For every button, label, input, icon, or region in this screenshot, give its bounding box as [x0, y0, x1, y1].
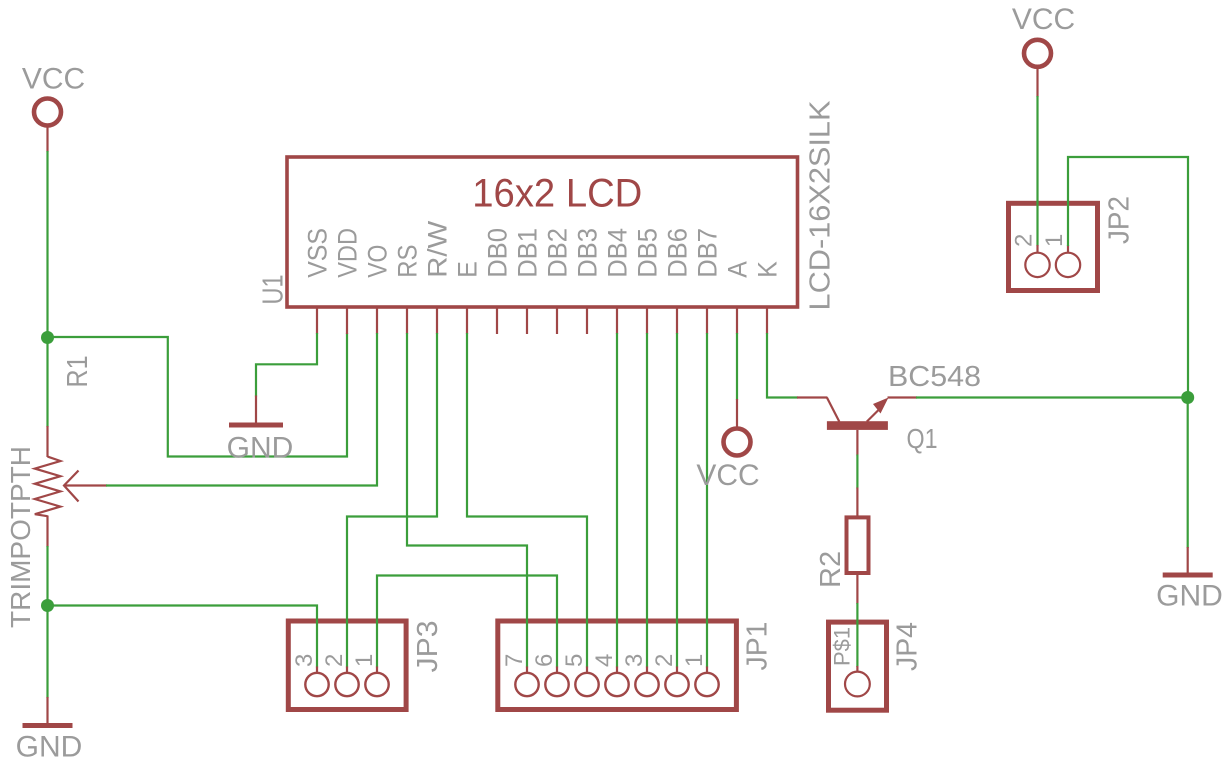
connector JP3 pad stub pin 1: [376, 667, 378, 674]
U1 pin stub VSS: [316, 307, 318, 334]
transistor Q1 collector pin stub: [797, 396, 827, 398]
U1 pin stub DB2: [556, 307, 558, 334]
svg-text:VCC: VCC: [696, 459, 759, 492]
ground stub (bottom left): [46, 697, 48, 724]
svg-text:VDD: VDD: [333, 228, 363, 278]
wire Q1 base to R2: [856, 455, 858, 489]
supply symbol VCC (under A pin) circle: [724, 429, 751, 456]
connector JP2 pad circle pin 1: [1056, 253, 1080, 277]
svg-text:VCC: VCC: [1012, 3, 1075, 36]
svg-text:4: 4: [591, 654, 618, 667]
svg-text:VSS: VSS: [303, 228, 333, 278]
connector JP1 pad stub pin 7: [526, 667, 528, 674]
connector JP1 pad circle pin 6: [545, 673, 568, 696]
U1 pin stub R/W: [436, 307, 438, 334]
connector JP4 outline: [829, 622, 887, 710]
U1 pin stub DB4: [616, 307, 618, 334]
connector JP1 outline: [498, 621, 737, 710]
svg-text:JP2: JP2: [1104, 196, 1136, 244]
svg-text:A: A: [723, 261, 753, 278]
resistor R2 body: [847, 517, 869, 573]
connector JP1 pad circle pin 1: [695, 673, 718, 696]
svg-text:GND: GND: [1156, 580, 1223, 613]
wire JP3 pin 1 to JP1 pin 6: [377, 576, 557, 668]
connector JP1 pad circle pin 7: [515, 673, 538, 696]
svg-text:7: 7: [501, 654, 528, 667]
wire K pin to Q1 collector: [767, 333, 798, 398]
U1 pin stub DB5: [646, 307, 648, 334]
connector JP3 pad circle pin 2: [335, 673, 358, 696]
svg-text:2: 2: [651, 654, 678, 667]
wire VCC down to junction A: [46, 151, 48, 338]
svg-text:R/W: R/W: [423, 220, 453, 278]
wire A pin down to VCC symbol: [736, 333, 738, 400]
IC U1 (16x2 LCD) box outline: [287, 157, 798, 307]
svg-text:DB5: DB5: [633, 228, 663, 278]
wire junction B to JP3 pin 3: [48, 606, 318, 668]
svg-text:6: 6: [531, 654, 558, 667]
transistor Q1 collector diagonal: [827, 398, 839, 422]
connector JP3 outline: [288, 621, 406, 710]
svg-text:GND: GND: [227, 432, 294, 465]
svg-text:2: 2: [1011, 234, 1038, 247]
transistor Q1 base bar: [827, 421, 888, 430]
wire DB6 pin to JP1 pin 2: [676, 333, 678, 668]
svg-text:Q1: Q1: [907, 423, 938, 454]
connector JP1 pad stub pin 4: [616, 667, 618, 674]
wire junction A to R1 top pin: [46, 337, 48, 427]
transistor Q1 emitter arrow head: [873, 398, 889, 414]
svg-text:R1: R1: [62, 356, 94, 388]
wire R1 bottom to junction B: [46, 546, 48, 606]
U1 pin stub E: [466, 307, 468, 334]
wire R/W pin to JP3 pin 2: [347, 333, 437, 668]
wire junction B down to GND: [46, 605, 48, 698]
connector JP4 pad circle P$1: [845, 672, 870, 697]
supply symbol VCC (top right) circle: [1024, 40, 1051, 67]
svg-text:DB1: DB1: [513, 228, 543, 278]
svg-text:P$1: P$1: [830, 627, 855, 666]
wire junction A to VDD pin of U1: [48, 333, 348, 457]
resistor R1 wiper arrow shaft: [64, 484, 107, 486]
ground stub (bottom right): [1187, 547, 1189, 574]
connector JP1 pad stub pin 1: [706, 667, 708, 674]
svg-text:VCC: VCC: [22, 63, 85, 96]
svg-text:DB3: DB3: [573, 228, 603, 278]
connector JP3 pad circle pin 1: [365, 673, 388, 696]
supply symbol VCC (top left) circle: [34, 99, 61, 126]
pad stub JP2 pin 1: [1067, 245, 1069, 252]
svg-text:LCD-16X2SILK: LCD-16X2SILK: [805, 100, 837, 311]
U1 pin stub RS: [406, 307, 408, 334]
resistor R2 top pin stub: [856, 488, 858, 518]
pin stub above VCC (A pin): [736, 399, 738, 428]
wire E pin to JP1 pin 5: [467, 333, 587, 668]
svg-text:R2: R2: [815, 551, 847, 588]
U1 pin stub K: [766, 307, 768, 334]
pad stub JP4 P$1: [856, 666, 858, 672]
resistor R1 bottom pin stub: [46, 516, 48, 548]
svg-text:DB4: DB4: [603, 228, 633, 278]
connector JP3 pad circle pin 3: [305, 673, 328, 696]
svg-text:TRIMPOTPTH: TRIMPOTPTH: [5, 446, 36, 628]
ground stub (center, VSS): [255, 396, 257, 424]
connector JP3 pad stub pin 2: [346, 667, 348, 674]
U1 pin stub VO: [376, 307, 378, 334]
transistor Q1 emitter diagonal: [867, 410, 879, 422]
connector JP1 pad circle pin 5: [575, 673, 598, 696]
svg-text:3: 3: [621, 654, 648, 667]
pad stub JP2 pin 2: [1036, 245, 1038, 252]
svg-text:BC548: BC548: [888, 361, 981, 393]
wire JP2 pin 1 to right rail: [1068, 157, 1188, 398]
connector JP1 pad stub pin 6: [556, 667, 558, 674]
svg-text:U1: U1: [258, 275, 290, 305]
wire DB5 pin to JP1 pin 3: [646, 333, 648, 668]
wire VCC to JP2 pin 2: [1036, 96, 1038, 246]
svg-text:DB2: DB2: [543, 228, 573, 278]
wire VSS pin to GND (center): [256, 333, 317, 397]
wire RS pin to JP1 pin 7: [407, 333, 527, 668]
U1 pin stub DB3: [586, 307, 588, 334]
svg-text:DB0: DB0: [483, 228, 513, 278]
junction B (GND net at R1): [41, 599, 54, 612]
ground symbol GND (bottom right) bar: [1163, 573, 1213, 578]
U1 pin stub DB1: [526, 307, 528, 334]
svg-text:2: 2: [321, 654, 348, 667]
svg-text:1: 1: [1041, 234, 1068, 247]
wire R2 to JP4 pin P$1: [856, 603, 858, 667]
svg-text:1: 1: [681, 654, 708, 667]
connector JP1 pad circle pin 4: [605, 673, 628, 696]
ground symbol GND (center) bar: [229, 423, 283, 428]
wire VO pin to R1 wiper: [106, 333, 377, 486]
svg-text:RS: RS: [393, 245, 423, 278]
svg-text:16x2 LCD: 16x2 LCD: [472, 172, 642, 216]
U1 pin stub DB7: [706, 307, 708, 334]
svg-text:K: K: [753, 261, 783, 278]
svg-text:JP4: JP4: [892, 622, 924, 671]
svg-text:3: 3: [291, 654, 318, 667]
U1 pin stub DB0: [496, 307, 498, 334]
connector JP1 pad circle pin 2: [665, 673, 688, 696]
U1 pin stub VDD: [346, 307, 348, 334]
svg-text:E: E: [453, 261, 483, 278]
svg-text:5: 5: [561, 654, 588, 667]
transistor Q1 base pin stub down: [856, 430, 858, 456]
transistor Q1 emitter pin stub: [888, 396, 918, 398]
svg-text:DB7: DB7: [693, 228, 723, 278]
connector JP1 pad stub pin 2: [676, 667, 678, 674]
svg-text:1: 1: [351, 654, 378, 667]
connector JP2 outline: [1009, 203, 1098, 290]
svg-text:JP1: JP1: [742, 622, 774, 671]
wire junction C down to GND: [1187, 398, 1189, 549]
svg-text:VO: VO: [363, 245, 393, 278]
resistor R1 (trimpot) zigzag body: [35, 457, 61, 517]
junction C (right rail): [1181, 391, 1194, 404]
connector JP2 pad circle pin 2: [1025, 253, 1049, 277]
connector JP1 pad stub pin 5: [586, 667, 588, 674]
svg-text:DB6: DB6: [663, 228, 693, 278]
U1 pin stub A: [736, 307, 738, 334]
resistor R2 bottom pin stub: [856, 573, 858, 604]
svg-text:GND: GND: [16, 731, 83, 764]
wire DB4 pin to JP1 pin 4: [616, 333, 618, 668]
connector JP1 pad circle pin 3: [635, 673, 658, 696]
resistor R1 wiper arrow head: [64, 471, 79, 502]
connector JP3 pad stub pin 3: [316, 667, 318, 674]
pin stub below VCC (top right): [1036, 67, 1038, 98]
connector JP1 pad stub pin 3: [646, 667, 648, 674]
wire DB7 pin to JP1 pin 1: [706, 333, 708, 668]
pin stub from VCC circle: [46, 126, 48, 153]
U1 pin stub DB6: [676, 307, 678, 334]
junction A (VCC / R1 / VDD net): [41, 331, 54, 344]
ground symbol GND (bottom left) bar: [23, 723, 73, 728]
svg-text:JP3: JP3: [412, 621, 444, 673]
resistor R1 top pin stub: [46, 426, 48, 457]
wire Q1 emitter to right rail junction: [916, 396, 1188, 398]
